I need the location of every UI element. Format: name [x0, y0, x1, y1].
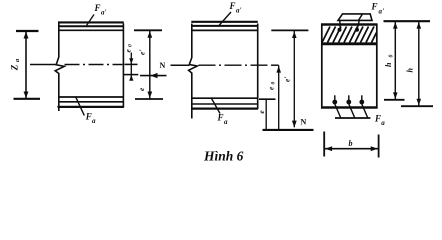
svg-text:F: F [94, 3, 101, 13]
svg-text:a: a [14, 58, 21, 62]
b dimension line [324, 148, 378, 150]
svg-text:a: a [381, 119, 385, 127]
e' tall dimension line (from Fa' level down to N) [293, 30, 295, 127]
label e' (rotated) [138, 50, 147, 55]
b right arrowhead [371, 146, 378, 151]
beam 1 left edge with break symbol [55, 24, 64, 112]
Fa bar dot 3 with stem [359, 100, 364, 105]
beam 1 top edge [58, 21, 124, 23]
Fa bar dot 2 with stem [346, 100, 351, 105]
beam 2 left edge with break symbol [189, 24, 198, 119]
svg-text:0: 0 [128, 44, 134, 47]
leader line Fa' beam 2 [219, 12, 231, 26]
svg-text:a': a' [379, 8, 385, 16]
e0 dimension line (left of beam 2) [130, 53, 132, 80]
Za top arrowhead [24, 32, 29, 39]
h0 bottom tick [384, 99, 405, 101]
compression zone bottom line (thick) [321, 42, 378, 45]
b left arrowhead [325, 146, 332, 151]
label b [349, 139, 353, 148]
label Za (rotated) [10, 58, 22, 71]
h up arrowhead [417, 22, 422, 29]
caption Hinh 6 [203, 149, 244, 164]
label e0 (rotated) [124, 44, 134, 53]
beam 1 bottom steel line Fa (lower) [58, 101, 124, 103]
svg-text:0: 0 [270, 82, 276, 85]
svg-text:e: e [266, 86, 275, 90]
e0 tick at N level [124, 74, 138, 76]
h0 down arrowhead [393, 92, 398, 99]
e0 up arrowhead at centerline [276, 66, 281, 73]
beam 2 centerline (dash-dot) [171, 64, 190, 66]
hatching of compression zone [322, 27, 377, 43]
h bottom tick [401, 105, 433, 107]
svg-text:e: e [124, 49, 133, 53]
middle bottom tick at Fa level [135, 98, 163, 100]
label Fa' of section 3 [371, 2, 385, 16]
label h0 (rotated) [384, 55, 394, 68]
middle top tick at Fa' level [134, 29, 162, 31]
beam 2 right edge [257, 24, 259, 109]
svg-text:e': e' [282, 77, 291, 82]
svg-text:N: N [301, 118, 307, 127]
up arrowhead on tall line [147, 31, 152, 38]
svg-text:F: F [217, 113, 224, 123]
leader line Fa beam 2 [211, 98, 220, 114]
svg-text:Z: Z [10, 64, 20, 71]
beam 1 bottom steel line Fa (upper) [58, 96, 124, 98]
h dimension line [418, 21, 420, 106]
leader from right bar to flag [357, 20, 359, 28]
svg-text:F: F [229, 1, 236, 11]
leader line Fa' beam 1 [87, 15, 95, 26]
beam 2 bottom edge [191, 107, 258, 109]
e0 dimension line (from centerline) [278, 65, 280, 129]
beam 2 bottom steel line Fa (upper) [191, 97, 258, 99]
Fa' bar dot right [355, 28, 359, 32]
leader line Fa beam 1 [76, 97, 85, 116]
h0 up arrowhead [393, 22, 398, 29]
svg-text:h: h [384, 62, 393, 67]
beam 2 top steel line Fa' (lower) [191, 29, 258, 31]
svg-text:a': a' [236, 7, 242, 15]
middle tall dimension line (e' over e) [149, 30, 151, 99]
svg-text:0: 0 [388, 55, 394, 58]
e0 tick at centerline [125, 63, 138, 65]
label N (beam 2 force) [301, 118, 307, 127]
Za dimension line [25, 32, 27, 99]
beam 1 bottom edge [58, 106, 124, 108]
svg-text:h: h [406, 68, 415, 73]
Fa' bar dot left [338, 28, 342, 32]
down arrowhead on tall line [147, 92, 152, 99]
e0 lower arrowhead (up) [129, 75, 133, 81]
leader from bar 1 to flag [335, 104, 341, 118]
label Fa' of beam 1 [94, 3, 107, 17]
Za top tick [16, 30, 39, 32]
bottom N level line [263, 129, 314, 131]
h down arrowhead [417, 99, 422, 106]
tick at Fa level [259, 98, 276, 100]
svg-text:F: F [85, 112, 92, 122]
svg-text:e': e' [138, 50, 147, 55]
Fa flag line below section [335, 117, 370, 119]
beam 1 right edge [122, 24, 124, 108]
beam 1 top steel line Fa' (upper) [58, 25, 124, 27]
svg-text:a: a [224, 118, 228, 126]
label N (beam 1 force) [160, 61, 166, 70]
N force arrow (beam 1, pointing left at tall line) [140, 75, 167, 77]
Fa' flag divider [359, 14, 363, 21]
label e (rotated) [137, 87, 146, 91]
svg-text:N: N [160, 61, 166, 70]
beam 2 top edge [191, 21, 257, 23]
svg-text:F: F [374, 113, 381, 123]
svg-text:a: a [92, 117, 96, 125]
label e' (tall line, rotated) [282, 77, 291, 82]
beam 2 bottom steel line Fa (lower) [191, 103, 258, 105]
leader from bar 2 to flag [349, 104, 355, 118]
Fa' flag parallelogram [338, 14, 372, 21]
label e0 (rotated) [266, 82, 276, 91]
e dimension line (short, from Fa level) [265, 99, 267, 130]
section top edge (thick) [321, 23, 378, 26]
e0 upper arrowhead (down) [129, 58, 133, 64]
beam 1 top steel line Fa' (lower) [58, 29, 124, 31]
label Fa of section 3 [374, 113, 385, 127]
label e (short line, rotated) [257, 110, 266, 114]
label Fa' of beam 2 [229, 1, 242, 15]
svg-text:e: e [257, 110, 266, 114]
svg-text:F: F [371, 2, 378, 12]
Za bottom arrowhead [24, 92, 29, 99]
svg-text:Hình 6: Hình 6 [203, 149, 244, 164]
label Fa of beam 2 [217, 113, 229, 127]
leader from left bar to flag [339, 20, 341, 28]
b left extension tick [323, 132, 325, 157]
svg-text:b: b [349, 139, 353, 148]
leader from bar 3 to flag [362, 104, 368, 118]
beam 1 centerline (dash-dot) [30, 64, 57, 66]
label Fa of beam 1 [85, 112, 96, 126]
Za bottom tick [14, 98, 41, 100]
section outline [322, 25, 377, 108]
svg-text:e: e [137, 87, 146, 91]
label h (rotated) [406, 68, 415, 73]
top tick at Fa' level [271, 29, 308, 31]
shared top tick [384, 20, 431, 22]
beam 2 top steel line Fa' (upper) [191, 25, 258, 27]
b right extension tick [378, 135, 380, 158]
Fa bar dot 1 with stem [332, 100, 337, 105]
svg-text:a': a' [101, 9, 107, 17]
h0 dimension line [394, 21, 396, 99]
down arrowhead on e' line (N application) [292, 121, 297, 128]
